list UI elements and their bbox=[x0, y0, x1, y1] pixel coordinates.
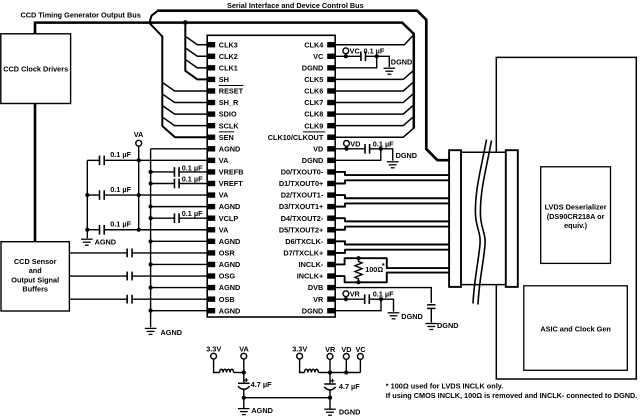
svg-text:Buffers: Buffers bbox=[22, 285, 48, 294]
junction: AGND rail row13 bbox=[85, 193, 89, 197]
svg-text:VC: VC bbox=[350, 46, 361, 55]
wire: cap to OSG pin bbox=[132, 275, 207, 277]
block: LVDS Deserializer box bbox=[541, 167, 611, 264]
junction: VA rail row16 bbox=[137, 228, 141, 232]
wire: VD cap to DGND bbox=[370, 149, 393, 161]
junction: AGND rail row21 bbox=[149, 286, 153, 290]
wire: CLK7 pin to CCD bus bbox=[335, 93, 414, 102]
wire: CCD sensor OSR output bbox=[69, 252, 127, 254]
ground: DGND (VR) bbox=[388, 312, 400, 314]
terminal: 3.3V (right) bbox=[297, 353, 303, 359]
svg-text:4.7 µF: 4.7 µF bbox=[251, 380, 272, 389]
svg-text:equiv.): equiv.) bbox=[564, 221, 588, 230]
junction: VR ground node bbox=[328, 396, 332, 400]
svg-text:VR: VR bbox=[313, 295, 324, 304]
svg-text:VD: VD bbox=[350, 139, 360, 148]
wire: ground node to DGND pin (VR) bbox=[335, 299, 381, 311]
wire: tap to CLK1 pin bbox=[185, 59, 207, 67]
junction: AGND rail row15 bbox=[149, 216, 153, 220]
wire: cap to OSB pin bbox=[132, 298, 207, 300]
svg-text:If using CMOS INCLK, 100Ω is r: If using CMOS INCLK, 100Ω is removed and… bbox=[386, 391, 638, 400]
wire: cap to AGND rail row 13 bbox=[87, 194, 99, 196]
svg-text:SCLK: SCLK bbox=[219, 121, 240, 130]
overline: CLKOUT part of CLK10/CLKOUT bbox=[303, 131, 326, 133]
wire: VA cap to ground node bbox=[243, 389, 245, 398]
terminal: VD bbox=[344, 140, 350, 146]
svg-text:4.7 µF: 4.7 µF bbox=[339, 382, 360, 391]
terminal: 3.3V (left) bbox=[211, 353, 217, 359]
wire: D5/TXOUT2+ to connector bbox=[335, 227, 449, 230]
svg-text:AGND: AGND bbox=[219, 306, 241, 315]
capacitor 0.1uF (VA row 10) bbox=[99, 156, 101, 166]
wire: CCD timing generator output bus (thick horizontal + right descent) bbox=[35, 23, 414, 129]
svg-text:VC: VC bbox=[313, 52, 324, 61]
svg-text:AGND: AGND bbox=[219, 260, 241, 269]
wire: CLK4 pin to CCD bus corner bbox=[335, 35, 414, 45]
svg-text:CCD Timing Generator Output Bu: CCD Timing Generator Output Bus bbox=[21, 11, 141, 20]
wire: VR terminal down bbox=[329, 359, 331, 384]
junction: VD cap ground node bbox=[379, 147, 383, 151]
svg-text:and: and bbox=[29, 266, 42, 275]
wire: VC cap to DGND bbox=[366, 56, 390, 67]
wire: D2/TXOUT1- to connector bbox=[335, 195, 449, 198]
svg-text:SDIO: SDIO bbox=[219, 110, 237, 119]
wire: CCD bus drop to CCD clock drivers box bbox=[34, 22, 37, 34]
overline: SEN pin bbox=[219, 131, 234, 133]
wire: D6/TXCLK- to connector bbox=[335, 241, 449, 244]
ground: AGND (bottom) bbox=[238, 408, 250, 410]
svg-text:DGND: DGND bbox=[391, 58, 413, 67]
svg-text:0.1 µF: 0.1 µF bbox=[182, 209, 203, 218]
svg-text:CLK3: CLK3 bbox=[219, 40, 238, 49]
svg-text:VA: VA bbox=[219, 191, 229, 200]
capacitor 0.1uF (VCLP) bbox=[173, 213, 175, 223]
label: plus (VR cap) bbox=[330, 379, 334, 383]
wire: VD terminal down bbox=[345, 359, 347, 372]
wire: CLK6 pin to CCD bus bbox=[335, 82, 414, 91]
junction: AGND rail row23 bbox=[149, 309, 153, 313]
capacitor C-VC 0.1uF bbox=[360, 51, 362, 61]
wire: D4/TXOUT2- to connector bbox=[335, 218, 449, 221]
junction: VA rail row13 bbox=[137, 193, 141, 197]
svg-text:DGND: DGND bbox=[437, 321, 459, 330]
svg-text:LVDS Deserializer: LVDS Deserializer bbox=[545, 203, 607, 212]
svg-text:0.1 µF: 0.1 µF bbox=[110, 220, 131, 229]
svg-text:CCD Clock Drivers: CCD Clock Drivers bbox=[3, 64, 68, 73]
svg-text:D3/TXOUT1+: D3/TXOUT1+ bbox=[279, 202, 323, 211]
svg-text:D2/TXOUT1-: D2/TXOUT1- bbox=[281, 191, 324, 200]
junction: AGND rail row16 bbox=[85, 228, 89, 232]
wire: VREFT cap to AGND rail bbox=[151, 182, 175, 184]
svg-text:0.1 µF: 0.1 µF bbox=[110, 185, 131, 194]
svg-text:CLK4: CLK4 bbox=[304, 40, 324, 49]
wire: VA pin row 13 wire bbox=[104, 194, 207, 196]
svg-text:CLK9: CLK9 bbox=[304, 121, 323, 130]
svg-text:CLK8: CLK8 bbox=[304, 110, 323, 119]
terminal: VA (left) bbox=[136, 140, 142, 146]
svg-text:AGND: AGND bbox=[219, 237, 241, 246]
junction: VR node bbox=[328, 370, 332, 374]
svg-text:0.1 µF: 0.1 µF bbox=[373, 289, 394, 298]
svg-text:AGND: AGND bbox=[251, 406, 273, 415]
junction: VA filter node bbox=[242, 370, 246, 374]
capacitor 0.1uF (VREFB) bbox=[173, 167, 175, 177]
wire: VCLP cap to AGND rail bbox=[151, 217, 175, 219]
capacitor coupling (OSB) bbox=[126, 295, 128, 304]
wire: VA pin row 16 wire bbox=[104, 229, 207, 231]
svg-text:0.1 µF: 0.1 µF bbox=[182, 174, 203, 183]
wire: AGND pin row21 bbox=[151, 287, 208, 289]
capacitor C-VD 0.1uF bbox=[364, 144, 366, 154]
wire: CLK9 pin to CCD bus bbox=[335, 116, 414, 125]
pins: IC left pin pads bbox=[208, 42, 215, 47]
svg-text:CLK6: CLK6 bbox=[304, 87, 323, 96]
capacitor 0.1uF (VA row 16) bbox=[99, 225, 101, 235]
wire: D3/TXOUT1+ to connector bbox=[335, 203, 449, 206]
pins: IC right pin pads bbox=[327, 42, 334, 47]
svg-text:AGND: AGND bbox=[219, 144, 241, 153]
ground: DGND (VD) bbox=[387, 161, 399, 163]
svg-text:CLK10/CLKOUT: CLK10/CLKOUT bbox=[268, 133, 324, 142]
svg-text:VR: VR bbox=[325, 345, 336, 354]
wire: ground node to DGND pin bbox=[335, 56, 377, 68]
svg-text:0.1 µF: 0.1 µF bbox=[182, 164, 203, 173]
svg-text:DGND: DGND bbox=[396, 151, 418, 160]
wire: CCD sensor OSB output bbox=[69, 298, 127, 300]
ground: AGND (left rail) bbox=[81, 238, 93, 240]
block: ASIC and Clock Gen box bbox=[524, 286, 628, 371]
wire: INCLK+ to connector bbox=[335, 273, 449, 283]
svg-text:VREFT: VREFT bbox=[219, 179, 243, 188]
svg-text:INCLK+: INCLK+ bbox=[297, 272, 324, 281]
svg-text:SH: SH bbox=[219, 75, 229, 84]
svg-text:3.3V: 3.3V bbox=[206, 345, 221, 354]
svg-text:OSG: OSG bbox=[219, 272, 236, 281]
junction: VC cap ground node bbox=[375, 54, 379, 58]
wire: VC pin wire bbox=[335, 55, 361, 57]
junction: VD terminal tap bbox=[344, 147, 348, 151]
wire: ground node to DGND pin (VD) bbox=[335, 149, 381, 161]
svg-text:CLK5: CLK5 bbox=[304, 75, 323, 84]
wire: D7/TXCLK+ to connector bbox=[335, 250, 449, 253]
svg-text:INCLK-: INCLK- bbox=[299, 260, 324, 269]
capacitor C 4.7uF (VR) polarized bbox=[324, 383, 336, 385]
svg-text:VD: VD bbox=[313, 144, 323, 153]
inductor L1 (VA filter) bbox=[220, 369, 234, 372]
wire: VA terminal down bbox=[243, 359, 245, 383]
svg-text:D0/TXOUT0-: D0/TXOUT0- bbox=[281, 168, 324, 177]
capacitor C-DVB bbox=[427, 304, 435, 306]
junction: AGND rail row11 bbox=[149, 170, 153, 174]
svg-text:SH_R: SH_R bbox=[219, 98, 239, 107]
svg-text:(DS90CR218A or: (DS90CR218A or bbox=[547, 212, 605, 221]
wire: tap to CLK3 pin bbox=[185, 36, 207, 44]
wire: AGND pin row17 bbox=[151, 240, 208, 242]
wire: VR pin wire bbox=[335, 298, 364, 300]
connector: header block left bbox=[449, 150, 461, 287]
capacitor coupling (OSR) bbox=[126, 248, 128, 257]
overline: RESET pin bbox=[219, 85, 244, 87]
svg-text:DGND: DGND bbox=[302, 63, 324, 72]
svg-text:* 100Ω used for LVDS INCLK onl: * 100Ω used for LVDS INCLK only. bbox=[386, 381, 503, 390]
inductor L2 (digital filter) bbox=[304, 369, 318, 372]
wire: connector top rail bbox=[461, 151, 506, 153]
wire: VA pin row 10 wire bbox=[104, 159, 207, 161]
svg-text:VA: VA bbox=[134, 130, 144, 139]
svg-text:DGND: DGND bbox=[302, 156, 324, 165]
wire: DVB pin wire bbox=[335, 288, 431, 303]
svg-text:Serial Interface and Device Co: Serial Interface and Device Control Bus bbox=[227, 1, 364, 10]
svg-text:D1/TXOUT0+: D1/TXOUT0+ bbox=[279, 179, 323, 188]
ground: DGND (DVB) bbox=[426, 323, 438, 325]
svg-text:VA: VA bbox=[219, 156, 229, 165]
wire: tap to SDIO pin bbox=[162, 106, 207, 115]
wire: CLK10 pin to CCD bus bbox=[335, 128, 414, 137]
svg-text:VA: VA bbox=[219, 225, 229, 234]
wire: VREFB cap to AGND rail bbox=[151, 171, 175, 173]
wire: AGND pin row14 bbox=[151, 206, 208, 208]
wire: serial bus left branch down to serial pins bbox=[150, 11, 207, 138]
junction: VD node bbox=[344, 370, 348, 374]
junction: VA ground node bbox=[242, 396, 246, 400]
capacitor C-VR 0.1uF bbox=[364, 294, 366, 304]
svg-text:100Ω: 100Ω bbox=[365, 265, 383, 274]
junction: VR terminal tap bbox=[344, 297, 348, 301]
block: module enclosure (right) bbox=[496, 57, 636, 379]
wire: VA gnd stem bbox=[243, 398, 245, 409]
terminal: VD (bottom) bbox=[343, 354, 349, 360]
svg-text:ASIC and Clock Gen: ASIC and Clock Gen bbox=[540, 325, 611, 334]
wire: tap to SCLK pin bbox=[162, 117, 207, 126]
ground: AGND (below IC) bbox=[145, 327, 157, 329]
wire: CCD clock drivers to CCD sensor (thick) bbox=[34, 104, 37, 242]
label: plus (VA cap) bbox=[244, 378, 248, 382]
junction: VR cap ground node bbox=[379, 297, 383, 301]
resistor R 100ohm (INCLK termination) bbox=[355, 258, 362, 282]
wire: tap to RESET pin bbox=[162, 82, 207, 91]
svg-text:3.3V: 3.3V bbox=[292, 345, 307, 354]
ground: DGND (bottom) bbox=[324, 408, 336, 410]
svg-text:VD: VD bbox=[341, 345, 351, 354]
svg-text:DGND: DGND bbox=[401, 312, 423, 321]
capacitor coupling (OSG) bbox=[126, 272, 128, 281]
wire: VC terminal down bbox=[359, 359, 361, 372]
wire: tap to SH_R pin bbox=[162, 94, 207, 103]
wire: inductor to VR node bbox=[318, 372, 360, 374]
wire: VR cap to ground node bbox=[329, 390, 331, 398]
wire: AGND pin row23 bbox=[151, 310, 208, 312]
wire: AGND pin row19 bbox=[151, 263, 208, 265]
svg-text:CLK1: CLK1 bbox=[219, 63, 238, 72]
wire: D1/TXOUT0+ to connector bbox=[335, 180, 449, 183]
block: CCD Clock Drivers box bbox=[1, 34, 71, 104]
svg-text:Output Signal: Output Signal bbox=[11, 275, 59, 284]
wire: inductor to VA node bbox=[234, 372, 244, 374]
capacitor 0.1uF (VREFT) bbox=[173, 179, 175, 189]
wire: VD pin wire bbox=[335, 148, 365, 150]
wire: tap to CLK2 pin bbox=[185, 48, 207, 56]
terminal: VC bbox=[343, 48, 349, 54]
svg-text:AGND: AGND bbox=[161, 328, 183, 337]
wire: DVB cap to ground bbox=[430, 308, 432, 322]
svg-text:0.1 µF: 0.1 µF bbox=[373, 139, 394, 148]
wire: 3.3V right to inductor bbox=[300, 359, 305, 372]
wire: CLK1-3/SH branch vertical bbox=[185, 23, 207, 80]
svg-text:DGND: DGND bbox=[339, 407, 361, 416]
svg-text:AGND: AGND bbox=[219, 202, 241, 211]
wire: VR gnd stem bbox=[329, 398, 331, 410]
svg-text:*: * bbox=[382, 261, 385, 270]
cable: twisted strand 2 bbox=[478, 141, 492, 305]
wire: VREFT pin to cap bbox=[179, 182, 207, 184]
junction: AGND rail row17 bbox=[149, 239, 153, 243]
wire: VR cap to DGND bbox=[369, 299, 393, 311]
wire: AGND collector rail bbox=[150, 149, 152, 327]
wire: cap to OSR pin bbox=[132, 252, 207, 254]
svg-text:VCLP: VCLP bbox=[219, 214, 239, 223]
svg-text:CLK2: CLK2 bbox=[219, 52, 238, 61]
wire: VA vertical rail bbox=[138, 146, 140, 230]
terminal: VR (bottom) bbox=[327, 354, 333, 360]
wire: cap to AGND rail row 16 bbox=[87, 229, 99, 231]
svg-text:DGND: DGND bbox=[302, 306, 324, 315]
svg-text:D5/TXOUT2+: D5/TXOUT2+ bbox=[279, 225, 323, 234]
wire: AGND pin row9 bbox=[151, 148, 208, 150]
svg-text:CLK7: CLK7 bbox=[304, 98, 323, 107]
junction: AGND rail row14 bbox=[149, 205, 153, 209]
svg-text:SEN: SEN bbox=[219, 133, 234, 142]
wire: 3.3V to inductor bbox=[214, 359, 220, 372]
junction: AGND rail row19 bbox=[149, 262, 153, 266]
svg-text:RESET: RESET bbox=[219, 87, 244, 96]
wire: serial interface bus (outer loop, top/right into connector) bbox=[157, 11, 450, 161]
svg-text:AGND: AGND bbox=[95, 237, 117, 246]
terminal: VR bbox=[343, 291, 349, 297]
wire: VREFB pin to cap bbox=[179, 171, 207, 173]
svg-text:VREFB: VREFB bbox=[219, 168, 244, 177]
wire: ground tie line bbox=[244, 397, 330, 399]
svg-text:VA: VA bbox=[239, 345, 249, 354]
junction: 100ohm bottom bbox=[356, 280, 360, 284]
connector: header block right bbox=[506, 150, 518, 287]
capacitor C 4.7uF (VA) polarized bbox=[238, 382, 250, 384]
wire: D0/TXOUT0- to connector bbox=[335, 172, 449, 175]
junction: AGND rail row12 bbox=[149, 181, 153, 185]
svg-text:D4/TXOUT2-: D4/TXOUT2- bbox=[281, 214, 324, 223]
wire: CCD sensor OSG output bbox=[69, 275, 127, 277]
cable: twisted strand 1 bbox=[473, 140, 487, 304]
junction: CCD bus / CLK1-3 branch bbox=[183, 20, 188, 25]
svg-text:AGND: AGND bbox=[219, 283, 241, 292]
svg-text:D7/TXCLK+: D7/TXCLK+ bbox=[283, 248, 323, 257]
wire: CLK5 pin to CCD bus bbox=[335, 70, 414, 79]
svg-text:D6/TXCLK-: D6/TXCLK- bbox=[285, 237, 324, 246]
wire: connector bottom rail bbox=[461, 284, 506, 286]
block: CCD Sensor and Output Signal Buffers box bbox=[1, 242, 69, 311]
junction: 100ohm top bbox=[356, 256, 360, 260]
svg-text:VC: VC bbox=[356, 345, 367, 354]
ground: DGND (VC) bbox=[384, 67, 396, 69]
terminal: VA (bottom) bbox=[241, 353, 247, 359]
svg-text:CCD Sensor: CCD Sensor bbox=[14, 257, 57, 266]
capacitor 0.1uF (VA row 13) bbox=[99, 190, 101, 200]
wire: INCLK- to connector bbox=[335, 258, 449, 268]
svg-text:OSB: OSB bbox=[219, 295, 235, 304]
junction: VA rail row10 bbox=[137, 158, 141, 162]
wire: cap to AGND rail row 10 bbox=[87, 159, 99, 161]
wire: AGND decoupling rail (left) bbox=[86, 160, 88, 238]
wire: CLK8 pin to CCD bus bbox=[335, 105, 414, 114]
svg-text:0.1 µF: 0.1 µF bbox=[364, 46, 385, 55]
terminal: VC (bottom) bbox=[358, 354, 364, 360]
svg-text:OSR: OSR bbox=[219, 248, 236, 257]
svg-text:DVB: DVB bbox=[308, 283, 323, 292]
op IC: CCD signal processor body bbox=[207, 35, 335, 317]
wire: VCLP pin to cap bbox=[179, 217, 207, 219]
svg-text:0.1 µF: 0.1 µF bbox=[110, 150, 131, 159]
svg-text:VR: VR bbox=[350, 290, 361, 299]
junction: VC terminal tap bbox=[344, 54, 348, 58]
